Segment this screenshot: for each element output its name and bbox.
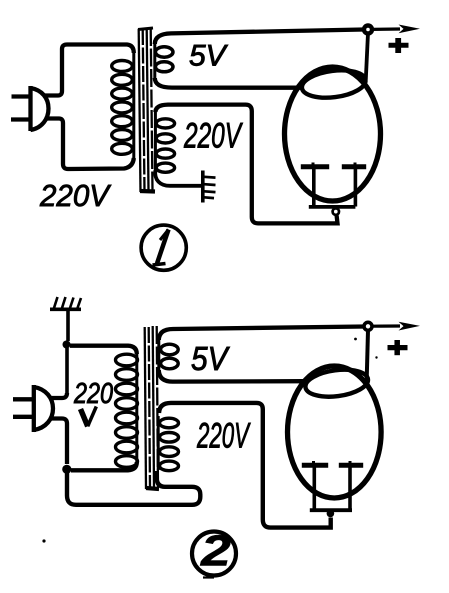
svg-text:220: 220 <box>73 378 113 410</box>
svg-text:220V: 220V <box>183 117 243 156</box>
svg-text:5V: 5V <box>191 340 230 377</box>
svg-text:5V: 5V <box>189 40 229 73</box>
svg-text:2: 2 <box>200 527 231 575</box>
svg-text:220V: 220V <box>39 178 112 213</box>
svg-text:220V: 220V <box>196 417 251 456</box>
